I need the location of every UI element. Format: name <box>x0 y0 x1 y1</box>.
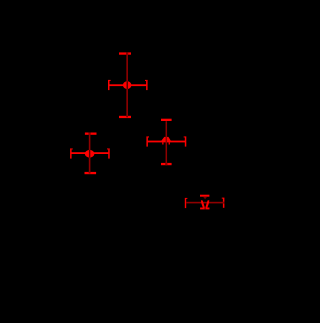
X3 left foot below line <box>162 142 163 144</box>
terminal pad (right) tick <box>222 198 223 199</box>
X1 electrode (left half of lens) <box>123 81 127 89</box>
X2 right plate tick <box>107 148 108 149</box>
wire N4 (horizontal, crosses X4) <box>186 202 224 204</box>
X2 electrode (left half of lens) <box>85 150 89 158</box>
wire N1 visible through X1 lens gap <box>127 81 128 89</box>
X4 bottom plate notch <box>205 208 206 210</box>
wire N1 (vertical, crosses X1) <box>126 52 128 117</box>
X1 left plate <box>108 80 110 90</box>
X2 right plate <box>108 148 110 158</box>
X3 arrow (stepped pyramid above line) <box>161 137 171 141</box>
X3 left plate <box>146 136 148 146</box>
X2 body line <box>71 152 109 154</box>
X3 bottom pad notch <box>165 163 167 166</box>
X1 right plate <box>146 80 148 90</box>
X4 right wing <box>205 200 209 207</box>
terminal pad (top) of net N1 <box>119 52 131 54</box>
X4 bottom plate <box>200 208 209 210</box>
X2 electrode (right half of lens) <box>90 150 94 158</box>
terminal pad (bottom) of net N1 <box>119 116 131 118</box>
X4 dark arrow (points down from top plate) <box>203 197 207 200</box>
wire N2 (vertical, crosses X2) <box>89 133 91 174</box>
X4 right pad notch <box>223 202 225 204</box>
X2 left plate <box>70 148 72 158</box>
X2 left plate tick <box>72 148 73 149</box>
X1 left plate tick <box>110 80 111 81</box>
X1 body line <box>109 84 147 86</box>
X3 right foot below line <box>169 142 170 144</box>
X3 right plate tick <box>184 136 185 137</box>
terminal pad (left) tick <box>186 198 187 199</box>
X2 top pad notch <box>89 132 91 135</box>
X4 left wing <box>201 200 205 207</box>
X1 top pad notch <box>126 52 128 55</box>
terminal pad (bottom) of net N3 <box>161 163 172 165</box>
terminal pad (bottom) of net N2 <box>85 172 97 174</box>
X1 electrode (right half of lens) <box>128 81 131 89</box>
terminal pad (top) of net N2 <box>85 133 97 135</box>
X3 left plate tick <box>148 136 149 137</box>
wire N2 visible through X2 lens gap <box>89 150 90 158</box>
X3 body line <box>147 141 185 143</box>
X3 right plate <box>185 136 187 146</box>
terminal pad (left) of net N4 <box>185 198 186 208</box>
wire N3 (vertical, crosses X3) <box>166 121 168 165</box>
X1 right plate tick <box>145 80 146 81</box>
X2 bottom pad notch <box>89 172 91 174</box>
terminal pad (top) of net N3 <box>161 119 172 121</box>
terminal pad (right) of net N4 <box>223 198 225 208</box>
X1 bottom pad notch <box>126 116 128 118</box>
X4 top plate <box>200 195 209 197</box>
